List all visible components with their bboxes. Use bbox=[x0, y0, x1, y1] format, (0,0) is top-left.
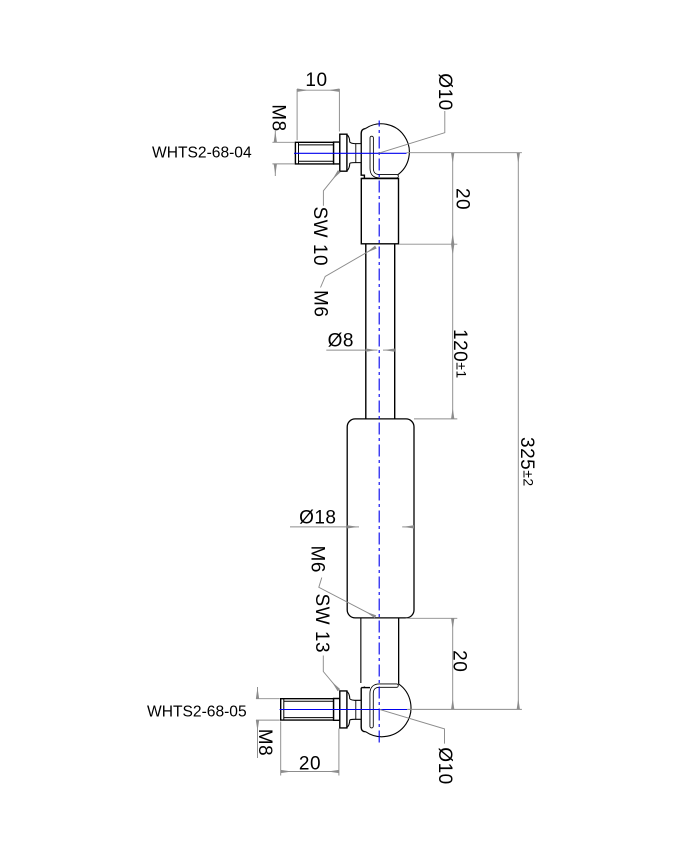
svg-text:M8: M8 bbox=[268, 104, 289, 131]
top ball head silhouette (white under-fill) bbox=[350, 125, 407, 178]
cylinder body bbox=[347, 419, 414, 618]
dim 20 (bottom thread length) bbox=[281, 722, 339, 776]
leader Ø10 (bottom) bbox=[380, 710, 445, 744]
top ball arc bbox=[365, 124, 409, 176]
svg-text:WHTS2-68-05: WHTS2-68-05 bbox=[147, 704, 247, 721]
top hex collar SW10 bbox=[340, 134, 350, 171]
dim 120±1 bbox=[452, 244, 454, 419]
bottom stud centerline bbox=[280, 709, 408, 711]
svg-text:20: 20 bbox=[449, 650, 470, 672]
bottom stud M8 bbox=[281, 699, 334, 720]
top connector block bbox=[361, 179, 398, 244]
svg-text:M6: M6 bbox=[307, 546, 328, 573]
top neck bbox=[349, 142, 362, 163]
dim Ø8 bbox=[326, 349, 394, 351]
lower tube bbox=[361, 618, 399, 688]
bottom ball head silhouette bbox=[350, 687, 411, 739]
svg-text:M6: M6 bbox=[309, 290, 330, 317]
top housing bottom edge bbox=[361, 178, 370, 180]
top stud M8 bbox=[295, 142, 333, 164]
bottom ball arc bbox=[366, 684, 411, 737]
svg-text:SW 13: SW 13 bbox=[311, 594, 332, 654]
dim M8 (bottom) bbox=[256, 687, 280, 758]
dim 20 (top right) bbox=[452, 153, 454, 245]
bottom hex collar SW13 bbox=[340, 691, 350, 728]
top stud centerline bbox=[294, 152, 407, 154]
svg-text:10: 10 bbox=[305, 70, 327, 91]
dim 10 (top thread length) bbox=[297, 89, 339, 140]
bottom slot channel bbox=[372, 686, 397, 727]
svg-text:SW 10: SW 10 bbox=[309, 207, 330, 267]
svg-text:WHTS2-68-04: WHTS2-68-04 bbox=[152, 145, 252, 162]
leader SW 13 bbox=[323, 656, 339, 691]
dim M8 (top) bbox=[272, 131, 294, 177]
svg-text:120±1: 120±1 bbox=[449, 329, 470, 379]
dim 20 (bottom right) bbox=[452, 618, 454, 709]
bottom housing top edge + notch bbox=[361, 687, 370, 689]
svg-text:M8: M8 bbox=[254, 729, 275, 756]
extension lines right side bbox=[407, 152, 522, 154]
svg-text:Ø18: Ø18 bbox=[299, 508, 336, 529]
svg-text:325±2: 325±2 bbox=[516, 437, 537, 487]
leader SW 10 bbox=[323, 171, 339, 206]
leader M6 (top) bbox=[321, 247, 376, 287]
svg-text:Ø10: Ø10 bbox=[434, 73, 455, 110]
svg-text:Ø8: Ø8 bbox=[328, 331, 354, 352]
dim Ø18 bbox=[290, 526, 414, 528]
leader M6 (bottom) bbox=[319, 578, 376, 617]
dim 325±2 bbox=[517, 153, 519, 710]
svg-text:20: 20 bbox=[451, 188, 472, 210]
top stud washer band bbox=[334, 142, 340, 164]
bottom neck bbox=[349, 699, 362, 720]
bottom stud washer band bbox=[334, 699, 340, 721]
svg-text:20: 20 bbox=[299, 754, 321, 775]
bottom housing left face bbox=[361, 688, 365, 732]
top housing left face bbox=[361, 129, 365, 179]
svg-text:Ø10: Ø10 bbox=[434, 747, 455, 784]
vertical centerline bbox=[378, 121, 380, 745]
piston rod bbox=[366, 244, 395, 419]
top slot channel bbox=[372, 138, 397, 176]
leader Ø10 (top) bbox=[379, 111, 445, 153]
